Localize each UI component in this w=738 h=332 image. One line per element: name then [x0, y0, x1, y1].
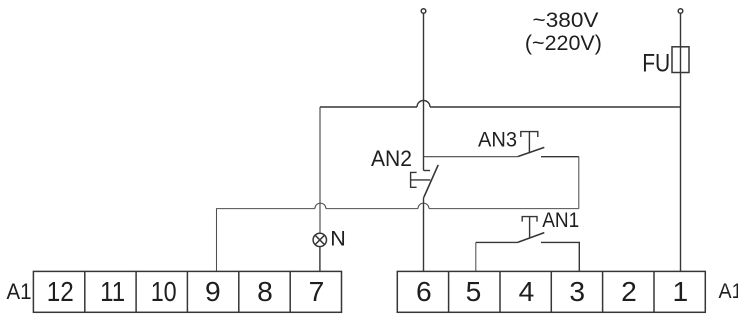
svg-text:10: 10 [151, 275, 177, 307]
svg-text:A1: A1 [7, 279, 32, 304]
terminal circle top L1 [421, 9, 426, 14]
wire hop over left vertical [417, 101, 430, 108]
svg-text:2: 2 [621, 275, 637, 307]
wire: lower horizontal from terminal 9 [217, 209, 315, 272]
wire: AN3 branch left segment [424, 156, 519, 158]
svg-text:1: 1 [673, 275, 689, 307]
wire: lower horizontal middle part [326, 208, 418, 210]
svg-text:A1: A1 [719, 280, 738, 303]
svg-text:8: 8 [257, 275, 273, 307]
wire: AN1 branch right segment to terminal 3 [541, 242, 579, 271]
svg-text:N: N [330, 227, 346, 251]
wire: riser up to AN3 branch [578, 157, 580, 209]
svg-text:FU: FU [642, 51, 670, 78]
wire: terminal 5 riser [475, 242, 477, 271]
terminal strip right [397, 271, 705, 312]
lamp N [313, 233, 326, 246]
svg-text:~380V: ~380V [533, 7, 600, 32]
wire: AN1 branch left segment [476, 241, 518, 243]
terminal strip left [33, 271, 341, 312]
svg-text:11: 11 [100, 275, 125, 307]
pushbutton AN3 actuator [521, 132, 538, 154]
svg-text:5: 5 [466, 275, 482, 307]
svg-text:12: 12 [47, 275, 74, 307]
svg-text:AN2: AN2 [371, 146, 412, 171]
wire: AN2 to terminal 6 [423, 198, 425, 272]
fuse FU [672, 47, 689, 73]
svg-text:(~220V): (~220V) [525, 31, 602, 55]
wire: left vertical from top terminal to AN2 [423, 14, 425, 171]
svg-text:7: 7 [309, 275, 325, 307]
svg-text:9: 9 [205, 275, 221, 307]
pushbutton AN2 blade [424, 165, 439, 198]
wire hop over AN2 wire [418, 203, 429, 208]
wire hop over lamp wire [315, 203, 326, 208]
terminal circle top L2 [678, 9, 683, 14]
svg-text:AN3: AN3 [478, 127, 517, 151]
svg-text:AN1: AN1 [542, 209, 579, 232]
svg-text:3: 3 [569, 275, 585, 307]
wire: AN3 branch right segment [541, 156, 579, 158]
terminal numbers left strip [47, 275, 325, 307]
svg-text:6: 6 [416, 275, 432, 307]
wire: lower horizontal right part [429, 208, 579, 210]
terminal numbers right strip [416, 275, 688, 307]
AN2 fixed contact tick [424, 170, 431, 172]
wire: top horizontal bus left part [320, 106, 417, 108]
pushbutton AN2 actuator [411, 172, 431, 187]
pushbutton AN1 blade [518, 233, 544, 243]
wire: vertical down to lamp [319, 107, 321, 234]
pushbutton AN3 blade [518, 147, 544, 156]
wire: top horizontal bus right part [430, 106, 681, 108]
pushbutton AN1 actuator [522, 217, 537, 238]
svg-text:4: 4 [519, 275, 535, 307]
wire: lamp to terminal 7 [319, 247, 321, 272]
wire: right vertical through fuse to terminal 1 [680, 14, 682, 272]
